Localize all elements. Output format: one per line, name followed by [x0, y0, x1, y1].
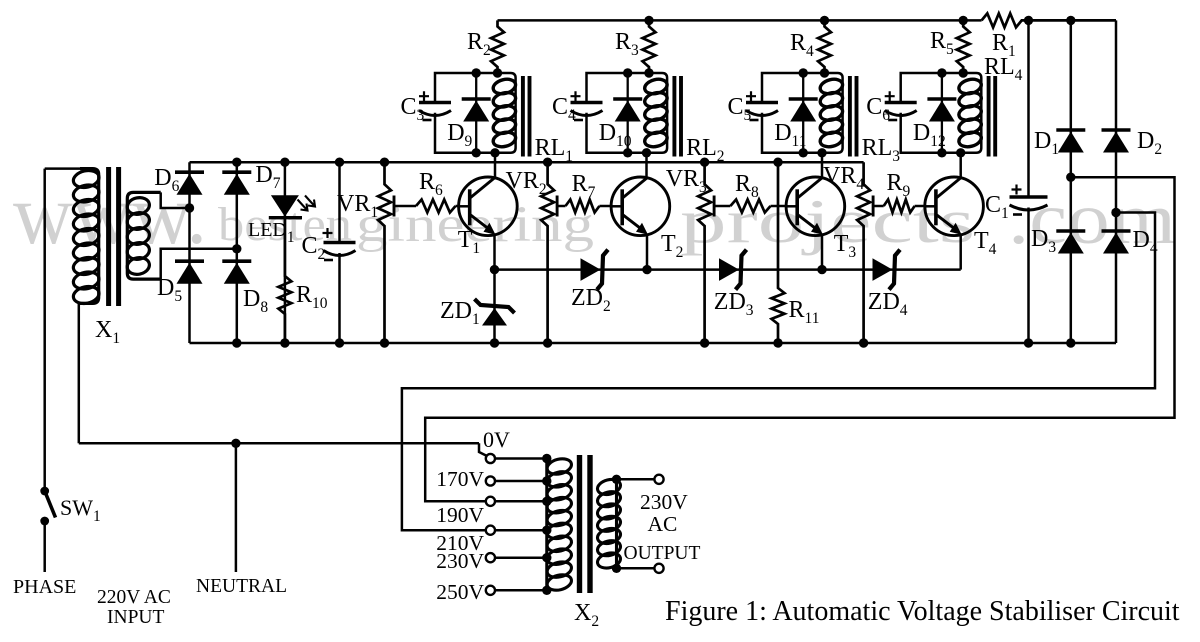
zener diode ZD4	[873, 250, 901, 290]
terminal 190V tap	[486, 497, 495, 506]
watermark text	[13, 166, 1176, 262]
diode D1	[1056, 130, 1085, 153]
transformer X1 secondary loops	[126, 196, 151, 277]
svg-text:230V: 230V	[436, 549, 484, 573]
wire C2 column bottom	[338, 253, 341, 343]
transistor T3	[786, 177, 845, 236]
resistor R11	[772, 162, 785, 343]
wire relay box RL1 frame	[435, 73, 516, 153]
node top supply rail	[0, 0, 1, 1]
transformer X1 secondary spine	[127, 192, 160, 279]
resistor R9	[884, 200, 915, 213]
relay coil RL3	[819, 77, 844, 149]
wire RL1 to T1 collector	[494, 153, 497, 178]
wire relay box RL2 frame	[587, 73, 668, 153]
terminal output bottom	[654, 564, 663, 573]
junction VR2 top on mid rail	[543, 158, 552, 167]
junction C6/D12 top	[937, 68, 946, 77]
relay core RL1	[523, 76, 530, 157]
wire T2 emitter down	[646, 235, 649, 270]
junction C3/D9 top	[472, 68, 481, 77]
relay core RL4	[989, 76, 996, 157]
svg-text:PHASE: PHASE	[13, 576, 76, 598]
junction D12 bottom	[937, 148, 946, 157]
relay coil RL1	[492, 77, 517, 149]
terminal 170V tap	[486, 476, 495, 485]
transistor T4	[925, 177, 984, 236]
wire 190V tap to X2 primary	[495, 500, 547, 503]
potentiometer VR3 wiper	[713, 196, 716, 217]
junction C4/D10 top	[623, 68, 632, 77]
svg-text:INPUT: INPUT	[107, 607, 165, 628]
switch SW1 top contact	[40, 487, 49, 496]
junction X2 primary tap 250V	[542, 586, 551, 595]
junction secondary top tap	[185, 203, 194, 212]
junction T1 emitter	[490, 265, 499, 274]
switch SW1 bottom contact	[40, 517, 49, 526]
junction R5 bottom	[959, 68, 968, 77]
svg-text:230V: 230V	[640, 490, 688, 514]
wire X1 primary bottom out	[79, 303, 80, 443]
diode D2	[1102, 130, 1131, 153]
junction X2 secondary top	[612, 475, 621, 484]
junction VR2 col on bottom rail	[543, 338, 552, 347]
wire phase input to X1 primary top	[45, 167, 80, 170]
relay coil RL2	[643, 77, 668, 149]
wire 170V tap to X2 primary	[495, 480, 547, 483]
zener diode ZD2	[581, 250, 609, 290]
potentiometer VR4 wiper	[872, 196, 875, 217]
junction R2 bottom	[493, 68, 502, 77]
wire relay box RL4 frame	[901, 73, 982, 153]
junction D9 bottom	[472, 148, 481, 157]
svg-text:OUTPUT: OUTPUT	[624, 543, 701, 564]
wire diode D12 column	[941, 73, 943, 153]
diode D7	[222, 172, 251, 195]
resistor R10	[278, 218, 291, 343]
wire 210V tap to X2 primary	[495, 529, 547, 532]
wire emitter bus segment 2	[647, 268, 822, 271]
wire top rail right corner down to D2	[1115, 20, 1118, 130]
potentiometer VR1 wiper	[393, 196, 396, 217]
wire ZD1 column	[493, 270, 496, 343]
terminal 250V tap	[486, 586, 495, 595]
potentiometer VR4	[857, 162, 870, 343]
wire R8 to T3 base	[771, 205, 787, 208]
terminal 230V tap	[486, 553, 495, 562]
junction C5/D11 top	[799, 68, 808, 77]
potentiometer VR2 wiper	[556, 196, 559, 217]
svg-text:220V AC: 220V AC	[97, 587, 171, 608]
diode D5	[175, 261, 204, 284]
junction collector tap RL2	[642, 148, 651, 157]
wire X2 secondary bottom to output	[617, 567, 655, 570]
wire C1 column top	[1027, 20, 1030, 197]
junction collector tap RL1	[490, 148, 499, 157]
junction LED col on mid rail	[280, 158, 289, 167]
capacitor C4	[571, 91, 603, 120]
junction ZD1 col on bottom rail	[490, 338, 499, 347]
svg-text:NEUTRAL: NEUTRAL	[196, 576, 287, 597]
junction R11 top on mid rail	[773, 158, 782, 167]
junction X2 primary tap 230V	[542, 553, 551, 562]
junction X2 primary tap 210V	[542, 526, 551, 535]
wire C1 column bottom	[1027, 208, 1030, 344]
junction T3 emitter	[817, 265, 826, 274]
wire RL3 to T3 collector	[821, 153, 824, 178]
junction collector tap RL4	[956, 148, 965, 157]
svg-text:0V: 0V	[483, 427, 510, 452]
diode D4	[1102, 231, 1131, 254]
wire VR1 wiper to R6	[394, 205, 416, 208]
svg-text:250V: 250V	[436, 580, 484, 604]
capacitor C3	[419, 91, 451, 120]
junction R4 bottom	[820, 68, 829, 77]
terminal output top	[654, 475, 663, 484]
wire neutral drop	[235, 443, 238, 572]
resistor R2	[491, 20, 504, 73]
wire bridge column D6/D5	[188, 162, 191, 343]
transformer X1 core	[109, 167, 119, 306]
potentiometer VR3	[698, 162, 711, 343]
wire T4 emitter down	[959, 235, 962, 270]
wire 250V tap to X2 primary	[495, 589, 547, 592]
wire D1/D3 column	[1070, 20, 1073, 343]
wire T1 emitter down	[493, 235, 496, 270]
wire X2 secondary top to output	[617, 478, 655, 481]
relay core RL3	[850, 76, 857, 157]
zener diode ZD1	[475, 299, 515, 326]
wire R9 to T4 base	[915, 205, 925, 208]
potentiometer VR2	[541, 162, 554, 343]
wire mid supply rail	[190, 161, 864, 164]
junction collector tap RL3	[817, 148, 826, 157]
relay core RL2	[674, 76, 681, 157]
relay coil RL4	[957, 77, 982, 149]
switch SW1 lever	[45, 491, 56, 518]
junction VR1 col on bottom rail	[380, 338, 389, 347]
junction VR3 top on mid rail	[700, 158, 709, 167]
junction R4 top	[820, 16, 829, 25]
junction T2 emitter	[642, 265, 651, 274]
wire D2/D4 column	[1115, 130, 1118, 343]
junction secondary bottom tap	[232, 244, 241, 253]
transformer X2 primary loops	[546, 456, 574, 592]
potentiometer VR1	[378, 162, 391, 343]
wire to 0V terminal	[479, 443, 487, 456]
wire X1 secondary top tap to bridge	[161, 192, 190, 208]
junction C1 col on bottom rail	[1024, 338, 1033, 347]
wire VR4 wiper to R9	[873, 205, 884, 208]
diode D10	[613, 99, 642, 122]
junction R3 top	[644, 16, 653, 25]
wire 0V tap to X2 primary	[495, 457, 547, 460]
diode D3	[1056, 231, 1085, 254]
junction C1 top	[1024, 16, 1033, 25]
wire C2 column top	[338, 162, 341, 242]
zener diode ZD3	[719, 250, 747, 290]
wire phase below switch	[43, 521, 46, 572]
junction VR3 col on bottom rail	[700, 338, 709, 347]
wire bottom rail	[190, 342, 1117, 345]
junction R11 col on bottom rail	[773, 338, 782, 347]
junction D1 D3 midpoint	[1066, 173, 1075, 182]
wire diode D10 column	[627, 73, 629, 153]
led LED1	[269, 195, 315, 217]
svg-text:170V: 170V	[436, 467, 484, 491]
junction D11 bottom	[799, 148, 808, 157]
terminal 210V tap	[486, 526, 495, 535]
resistor R1	[982, 13, 1116, 27]
junction X2 secondary bottom	[612, 564, 621, 573]
junction C2 col on bottom rail	[335, 338, 344, 347]
wire diode D9 column	[475, 73, 477, 153]
wire bridge column D7/D8	[236, 162, 239, 343]
svg-text:AC: AC	[648, 512, 678, 536]
capacitor C5	[746, 91, 778, 120]
resistor R8	[730, 200, 770, 213]
resistor R4	[818, 20, 831, 73]
wire top rail left segment	[498, 19, 982, 22]
diode D8	[222, 261, 251, 284]
transistor T1	[459, 177, 518, 236]
capacitor C2	[323, 228, 356, 260]
wire T3 emitter down	[821, 235, 824, 270]
diode D11	[789, 99, 818, 122]
wire emitter bus segment 1	[495, 268, 648, 271]
diode D9	[462, 99, 491, 122]
junction neutral tap	[231, 439, 240, 448]
resistor R5	[957, 20, 970, 73]
wire D2/D4 node to 210V tap	[402, 213, 1155, 531]
junction D8 col on bottom rail	[232, 338, 241, 347]
terminal 0V tap	[486, 454, 495, 463]
junction R10 col on bottom rail	[280, 338, 289, 347]
diode D6	[175, 172, 204, 195]
capacitor C1	[1010, 185, 1048, 215]
junction C2 col on mid rail	[335, 158, 344, 167]
junction R5 top	[959, 16, 968, 25]
wire VR2 wiper to R7	[557, 205, 565, 208]
resistor R3	[643, 20, 656, 73]
junction D1 top	[1066, 16, 1075, 25]
junction VR4 col on bottom rail	[859, 338, 868, 347]
capacitor C6	[885, 91, 917, 120]
junction D2 D4 midpoint	[1111, 208, 1120, 217]
wire X1 secondary bottom tap to bridge	[161, 249, 237, 279]
wire R7 to T2 base	[599, 205, 611, 208]
wire D1/D3 node to 190V tap	[425, 177, 1174, 501]
transformer X2 core	[580, 455, 591, 593]
wire LED/R10 column	[284, 162, 287, 343]
wire phase column	[43, 169, 46, 491]
transformer X1 primary spine	[80, 169, 99, 304]
wire relay box RL3 frame	[762, 73, 843, 153]
junction D3 col on bottom rail	[1066, 338, 1075, 347]
wire 230V tap to X2 primary	[495, 556, 547, 559]
wire diode D11 column	[802, 73, 804, 153]
wire emitter bus segment 3	[822, 268, 961, 271]
svg-text:190V: 190V	[436, 503, 484, 527]
svg-text:Figure 1: Automatic Voltage St: Figure 1: Automatic Voltage Stabiliser C…	[665, 596, 1180, 627]
resistor R7	[566, 200, 600, 213]
transistor T2	[611, 177, 670, 236]
wire neutral horizontal run	[79, 442, 479, 445]
junction VR1 top on mid rail	[380, 158, 389, 167]
junction X2 primary tap 0V	[542, 454, 551, 463]
diode D12	[927, 99, 956, 122]
transformer X1 primary loops	[72, 168, 101, 305]
wire R6 to T1 base	[456, 205, 459, 208]
wire RL2 to T2 collector	[645, 153, 648, 178]
junction X2 primary tap 170V	[542, 476, 551, 485]
junction D10 bottom	[623, 148, 632, 157]
junction X2 primary tap 190V	[542, 497, 551, 506]
wire RL4 to T4 collector	[959, 153, 962, 178]
junction R3 bottom	[644, 68, 653, 77]
resistor R6	[416, 200, 456, 213]
transformer X2 secondary loops	[596, 477, 622, 570]
junction D7 col on mid rail	[232, 158, 241, 167]
wire VR3 wiper to R8	[714, 205, 730, 208]
